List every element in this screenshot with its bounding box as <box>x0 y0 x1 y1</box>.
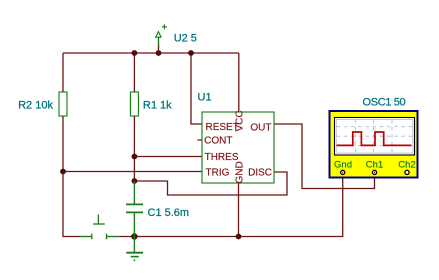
node Gnd terminal center <box>342 172 343 173</box>
node junction THRES <box>132 154 138 160</box>
wire R1 top lead <box>133 53 135 92</box>
terminal Gnd <box>341 170 345 174</box>
svg-text:OUT: OUT <box>250 123 271 134</box>
op-amp U1 555 timer box <box>202 112 274 183</box>
terminal Ch2 <box>405 170 409 174</box>
oscilloscope screen inner frame <box>336 120 413 154</box>
wire OUT to Ch1 <box>274 124 375 189</box>
svg-text:Gnd: Gnd <box>334 159 352 170</box>
svg-text:TRIG: TRIG <box>206 168 230 179</box>
svg-text:Ch1: Ch1 <box>366 159 383 170</box>
node junction top rail at reset wire <box>188 50 194 56</box>
node junction GND pin rail <box>236 234 242 240</box>
wire U1 GND pin to bottom rail <box>238 183 240 237</box>
node junction left column TRIG <box>60 169 66 175</box>
wire top rail <box>63 52 239 54</box>
capacitor C1 <box>126 181 143 237</box>
wire TRIG connection <box>63 171 202 173</box>
svg-text:C1 5.6m: C1 5.6m <box>148 207 190 219</box>
switch S1 push button <box>80 215 119 240</box>
svg-text:U1: U1 <box>198 92 212 104</box>
node Ch1 terminal center <box>374 172 375 173</box>
svg-text:R2 10k: R2 10k <box>18 100 53 112</box>
oscilloscope grid <box>337 120 413 153</box>
svg-text:VCC: VCC <box>234 110 245 131</box>
wire RESET connection <box>191 53 202 124</box>
wire DISC loop <box>134 172 287 195</box>
terminal Ch1 <box>372 170 376 174</box>
svg-text:OSC1 50: OSC1 50 <box>363 96 406 108</box>
oscilloscope trace square wave <box>337 132 412 145</box>
ground <box>126 237 143 262</box>
node junction top rail at R1 <box>132 50 138 56</box>
wire THRES connection <box>134 156 202 158</box>
oscilloscope OSC1 body <box>330 111 418 178</box>
svg-text:U2 5: U2 5 <box>174 33 197 45</box>
power source U2 arrow symbol <box>156 24 167 53</box>
svg-text:DISC: DISC <box>248 168 272 179</box>
wire bottom rail to scope Gnd <box>118 175 343 237</box>
node junction C1 bottom rail <box>131 233 137 239</box>
resistor R2 <box>59 92 67 116</box>
resistor R1 <box>130 92 138 116</box>
oscilloscope screen <box>335 118 415 156</box>
svg-text:Ch2: Ch2 <box>398 159 415 170</box>
svg-text:CONT: CONT <box>204 136 232 147</box>
wire left column upper (R2 top lead) <box>62 53 64 92</box>
wire CONT stub <box>198 139 203 141</box>
wire R1 bottom lead to C1 <box>133 116 135 181</box>
node junction DISC/C1 <box>132 178 138 184</box>
svg-text:R1 1k: R1 1k <box>143 100 172 112</box>
node junction top rail at power <box>156 50 162 56</box>
svg-text:GND: GND <box>234 161 245 183</box>
wire VCC drop to U1 <box>238 53 240 112</box>
wire left column lower <box>63 116 80 237</box>
